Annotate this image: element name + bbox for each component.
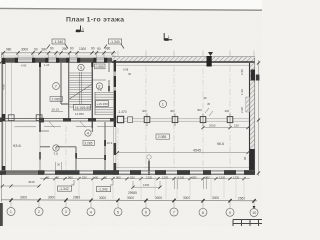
lower corridor wall <box>40 131 76 147</box>
top dimension ticks and extension stubs <box>2 51 115 55</box>
misc small texts upper left rooms <box>21 63 131 76</box>
room 7 area box <box>50 97 63 102</box>
axis lines <box>12 62 231 170</box>
right wall dark patches <box>251 70 255 81</box>
axis circle 1 <box>7 208 15 216</box>
small leader marks above top wall <box>47 44 124 49</box>
left outer wall <box>1 58 5 175</box>
shaft wall x=109 <box>108 60 110 93</box>
stair shaft left wall <box>68 62 70 120</box>
section mark 1 (left) <box>76 26 85 33</box>
axis circle 9 <box>226 208 234 216</box>
dark strip bottom-left edge <box>0 203 3 226</box>
hall column row beam lines <box>116 119 249 121</box>
hall column 2 <box>144 114 150 127</box>
stair landing level texts <box>75 110 127 116</box>
door frame stub into hall <box>148 161 150 176</box>
room circle 1 (hall) <box>159 100 166 107</box>
stair 1 level label box <box>74 105 91 111</box>
axis 3 trace in lower rooms <box>65 126 67 170</box>
axis circle 3 <box>62 208 70 216</box>
lower rooms walls <box>75 122 106 170</box>
right outside dimension line <box>256 60 260 176</box>
window jamb blocks <box>15 58 107 63</box>
light strip above frame line <box>0 0 262 9</box>
hall column 0 (axis 5) <box>117 116 123 122</box>
room circle 7 <box>53 83 60 90</box>
axis extension stubs above hall wall <box>118 51 254 58</box>
axis circle 2 <box>35 208 43 216</box>
bottom wall band <box>2 155 255 175</box>
stair shaft right wall <box>91 62 93 128</box>
hall left wall <box>114 60 117 171</box>
hall column 5 <box>227 114 233 127</box>
hall column 1 <box>128 117 133 123</box>
hall area box <box>156 134 170 139</box>
section mark 1 (right) <box>164 33 173 41</box>
stair 1 break line <box>70 84 93 99</box>
stair 2 level label box <box>96 101 109 107</box>
axis 10 leader arrow <box>253 206 256 209</box>
left lower dimension line <box>1 180 41 188</box>
secondary chain dimension segment <box>133 177 207 189</box>
stair 2 side line <box>94 92 96 115</box>
top dimension line <box>1 52 116 54</box>
room circle 3 <box>78 64 84 70</box>
hall internal dimension line <box>116 149 250 154</box>
stair 1 stringer <box>80 72 82 105</box>
elevation box label right <box>109 39 122 44</box>
right outer wall hatched <box>246 58 255 176</box>
interior wall axis2 x=40 upper <box>39 62 41 120</box>
inner face line of hall top wall <box>116 64 249 66</box>
room 2 area box <box>95 64 106 69</box>
hall right dimension line <box>201 123 249 129</box>
top wall piers <box>2 58 116 62</box>
dark fills on mid wall <box>39 118 116 123</box>
axis circle 5 <box>114 208 122 216</box>
small wall below room 7 <box>61 103 69 105</box>
section target mark above hall wall <box>208 52 213 56</box>
room circle 2 <box>96 83 102 89</box>
bottom window glazing lines <box>45 172 244 174</box>
elevation box label left <box>52 39 65 44</box>
column box axis2 <box>36 115 42 121</box>
axis circle 4 <box>87 208 95 216</box>
axis circle 8 <box>199 208 207 216</box>
top dimension numbers <box>6 46 111 51</box>
bottom wall piers <box>2 171 45 174</box>
window glazing lines <box>18 59 104 61</box>
left vertical dimension chain <box>0 53 3 202</box>
interior wall x=61 <box>60 62 62 104</box>
hall column 3 <box>172 114 178 127</box>
boxed elevation label bottom 2 <box>97 180 114 192</box>
top wall hall hatched band <box>112 56 255 67</box>
axis circle 10 <box>250 209 258 217</box>
door jamb stubs above bottom wall <box>56 162 62 171</box>
right wall pilaster <box>246 97 250 112</box>
room circle 4 <box>85 130 91 136</box>
level text under room 7 box <box>51 108 63 112</box>
window jamb extension lines below wall <box>55 176 244 199</box>
door tag circle <box>147 155 151 159</box>
stair 1 landing line <box>69 106 92 108</box>
boxed elevation label bottom 1 <box>58 180 75 191</box>
small vestibule wall near room 2 <box>93 79 106 81</box>
top dimension secondary line <box>1 55 116 57</box>
axis8 column callout cluster <box>204 96 214 116</box>
under-wall tick dimension line <box>40 175 250 189</box>
axis circle 7 <box>170 208 178 216</box>
stair 2 treads <box>95 93 113 115</box>
title block table bottom-right <box>233 220 262 227</box>
frame top border line <box>0 8 262 10</box>
paper grain overlay <box>0 0 1 1</box>
stair 1 treads <box>69 73 92 104</box>
axis circle leader lines <box>11 200 254 209</box>
hall column 4 <box>200 114 206 127</box>
room 4 area box <box>83 141 95 146</box>
mid horizontal wall left block <box>3 115 116 128</box>
main bottom dimension line <box>1 191 257 203</box>
column annotation texts <box>142 108 230 113</box>
axis circle 6 <box>142 208 150 216</box>
column blob on axis 8 <box>207 56 212 67</box>
door swings on mid wall <box>15 122 114 128</box>
room circle 6 <box>53 145 59 156</box>
top wall left block band <box>2 58 116 63</box>
interior wall axis2 lower segments <box>39 121 41 170</box>
column box axis1 <box>8 115 14 121</box>
